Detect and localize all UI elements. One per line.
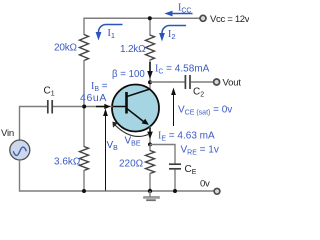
node emitter junction [148, 143, 152, 147]
wire emitter to RE [149, 145, 151, 152]
svg-text:Vout: Vout [223, 77, 242, 88]
wire collector lead to transistor [149, 60, 151, 90]
resistor R1 20k zigzag [80, 35, 89, 61]
wire C2 to Vout [191, 81, 214, 83]
node base junction [82, 105, 86, 109]
svg-text:IE = 4.63 mA: IE = 4.63 mA [158, 131, 215, 143]
node top junction [148, 16, 152, 20]
svg-text:20kΩ: 20kΩ [54, 43, 78, 54]
svg-text:β = 100: β = 100 [112, 69, 145, 80]
label IB = 46uA [80, 81, 108, 104]
svg-text:IC = 4.58mA: IC = 4.58mA [155, 64, 210, 76]
wire collector branch to C2 [150, 81, 185, 83]
wire left divider column upper [83, 18, 85, 35]
resistor R2 3.6k zigzag [80, 147, 89, 171]
arrow I1 blue curved [96, 25, 123, 41]
ground symbol [144, 191, 160, 201]
wire Vin top [19, 106, 21, 141]
terminal Vout [214, 79, 220, 85]
wire base from Vin [20, 106, 48, 108]
wire emitter branch to CE [150, 145, 175, 164]
svg-text:1.2kΩ: 1.2kΩ [120, 44, 146, 55]
svg-text:3.6kΩ: 3.6kΩ [54, 157, 81, 168]
transistor emitter diagonal with arrow [127, 109, 149, 125]
wire Vin bottom [19, 160, 21, 192]
svg-text:VRE = 1v: VRE = 1v [181, 145, 219, 157]
transistor base lead inside [113, 106, 127, 108]
wire collector column upper lead [149, 18, 151, 36]
resistor R4 220 zigzag [146, 151, 155, 174]
node divider bottom [82, 189, 86, 193]
arrow VBE curved [112, 122, 148, 137]
arrow VB black vertical [103, 109, 108, 191]
wire CE bottom lead [174, 170, 176, 192]
capacitor CE [169, 164, 181, 169]
svg-text:46uA: 46uA [80, 92, 107, 104]
wire divider bottom lead [83, 170, 85, 191]
arrow IE current black [147, 128, 153, 140]
arrow IB base current black [96, 104, 111, 109]
terminal 0v [214, 188, 220, 194]
capacitor C1 [48, 100, 52, 114]
arrow IC current black [147, 62, 153, 79]
wire top rail Vcc [84, 17, 201, 19]
node CE bottom [173, 189, 177, 193]
svg-text:Vcc = 12v: Vcc = 12v [210, 14, 249, 25]
transistor Q1 circle body [112, 85, 159, 132]
node collector junction [148, 80, 152, 84]
arrow VCE black vertical [171, 88, 176, 127]
capacitor C2 [185, 75, 190, 89]
resistor R3 1.2k zigzag [146, 35, 155, 60]
svg-text:0v: 0v [200, 178, 210, 189]
wire emitter lead [149, 127, 151, 146]
transistor collector diagonal [127, 89, 150, 97]
arrow I2 blue curved [159, 26, 186, 42]
terminal Vcc [200, 15, 206, 21]
source Vin circle [10, 140, 30, 160]
wire bottom rail [20, 190, 215, 192]
node ground junction [148, 189, 152, 193]
arrow ICC blue [164, 11, 192, 17]
svg-text:Vin: Vin [1, 128, 14, 139]
wire C1 to base [53, 106, 113, 108]
svg-text:220Ω: 220Ω [119, 159, 144, 170]
transistor base bar [125, 92, 128, 114]
wire divider middle segment [83, 60, 85, 147]
source sine wave [13, 147, 26, 155]
wire RE bottom lead [149, 173, 151, 191]
